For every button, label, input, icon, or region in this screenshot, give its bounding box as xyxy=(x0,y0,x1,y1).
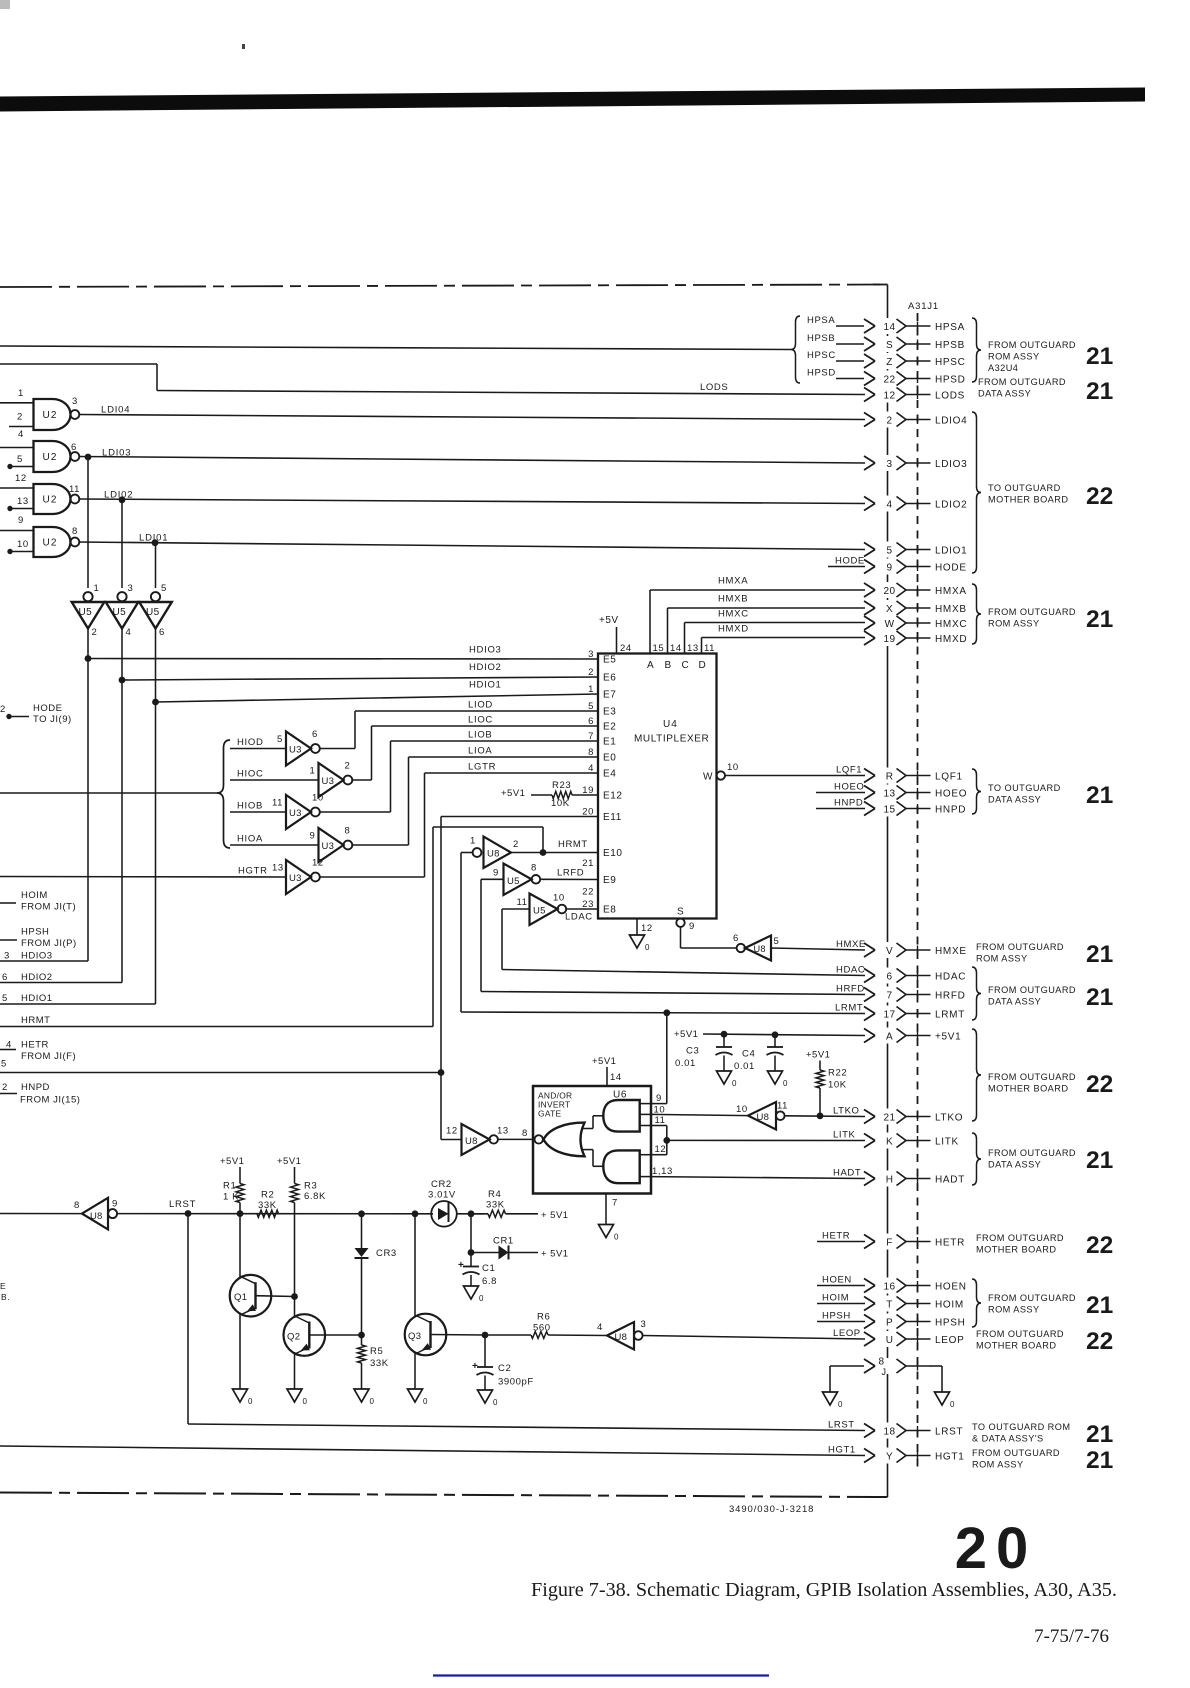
svg-text:H: H xyxy=(886,1174,894,1185)
svg-text:HDIO3: HDIO3 xyxy=(469,645,502,656)
svg-text:LRFD: LRFD xyxy=(557,868,584,879)
svg-text:21: 21 xyxy=(1086,1447,1113,1474)
svg-text:0.01: 0.01 xyxy=(675,1058,696,1069)
svg-text:HETR: HETR xyxy=(822,1230,850,1241)
svg-text:E3: E3 xyxy=(603,707,616,718)
svg-text:11: 11 xyxy=(69,484,80,495)
svg-text:14: 14 xyxy=(670,643,682,654)
svg-text:HPSD: HPSD xyxy=(807,367,836,378)
svg-text:+ 5V1: + 5V1 xyxy=(541,1210,569,1221)
svg-text:LRMT: LRMT xyxy=(835,1002,863,1013)
svg-text:ROM ASSY: ROM ASSY xyxy=(988,352,1040,362)
svg-text:MULTIPLEXER: MULTIPLEXER xyxy=(634,734,709,745)
svg-text:Z: Z xyxy=(886,357,893,368)
svg-text:Q2: Q2 xyxy=(287,1332,300,1343)
svg-text:HPSB: HPSB xyxy=(807,333,835,344)
svg-text:10: 10 xyxy=(727,762,739,773)
svg-text:12: 12 xyxy=(446,1126,458,1137)
svg-text:21: 21 xyxy=(1086,1421,1113,1448)
svg-text:U5: U5 xyxy=(507,876,520,887)
svg-text:12: 12 xyxy=(641,923,653,934)
svg-text:8: 8 xyxy=(879,1357,885,1368)
svg-text:U5: U5 xyxy=(533,906,546,917)
svg-text:U5: U5 xyxy=(113,607,127,618)
svg-text:0: 0 xyxy=(783,1079,788,1088)
svg-text:DATA ASSY: DATA ASSY xyxy=(988,795,1041,805)
svg-text:C2: C2 xyxy=(498,1363,511,1374)
svg-text:FROM OUTGUARD: FROM OUTGUARD xyxy=(972,1448,1060,1458)
svg-text:B.: B. xyxy=(1,1292,10,1302)
svg-text:2: 2 xyxy=(0,704,6,715)
svg-text:E2: E2 xyxy=(603,722,616,733)
svg-text:0: 0 xyxy=(950,1400,955,1409)
svg-text:X: X xyxy=(886,604,893,615)
svg-text:FROM JI(F): FROM JI(F) xyxy=(21,1051,76,1062)
svg-text:HGTR: HGTR xyxy=(238,866,268,877)
svg-text:HODE: HODE xyxy=(33,703,62,714)
svg-text:3: 3 xyxy=(641,1319,647,1330)
svg-text:9: 9 xyxy=(887,562,893,573)
svg-text:0: 0 xyxy=(838,1400,843,1409)
svg-text:0: 0 xyxy=(645,943,650,952)
svg-text:CR2: CR2 xyxy=(431,1179,452,1190)
svg-text:HRMT: HRMT xyxy=(558,839,588,850)
svg-text:TO JI(9): TO JI(9) xyxy=(33,714,72,725)
svg-text:FROM OUTGUARD: FROM OUTGUARD xyxy=(976,1329,1064,1339)
svg-text:MOTHER BOARD: MOTHER BOARD xyxy=(976,1341,1056,1351)
svg-text:5: 5 xyxy=(2,993,8,1004)
svg-text:HDAC: HDAC xyxy=(935,971,966,982)
svg-text:9: 9 xyxy=(310,831,316,842)
svg-text:0: 0 xyxy=(303,1397,308,1406)
svg-text:V: V xyxy=(886,946,893,957)
svg-text:20: 20 xyxy=(955,1516,1038,1581)
svg-text:4: 4 xyxy=(18,429,24,440)
svg-text:11: 11 xyxy=(777,1101,788,1112)
svg-text:LRST: LRST xyxy=(828,1419,855,1430)
svg-text:LGTR: LGTR xyxy=(468,762,496,773)
svg-text:S: S xyxy=(886,340,893,351)
svg-text:13: 13 xyxy=(272,863,284,874)
svg-text:MOTHER BOARD: MOTHER BOARD xyxy=(976,1245,1056,1255)
svg-text:FROM OUTGUARD: FROM OUTGUARD xyxy=(988,1148,1076,1158)
svg-text:FROM JI(15): FROM JI(15) xyxy=(20,1095,80,1106)
svg-text:560: 560 xyxy=(533,1323,551,1334)
svg-text:+5V1: +5V1 xyxy=(501,788,525,799)
svg-text:FROM OUTGUARD: FROM OUTGUARD xyxy=(976,1233,1064,1243)
svg-text:W: W xyxy=(703,772,713,783)
svg-text:LRST: LRST xyxy=(935,1426,963,1437)
svg-text:LDAC: LDAC xyxy=(565,912,593,923)
svg-text:11: 11 xyxy=(655,1115,666,1126)
svg-text:6: 6 xyxy=(887,971,893,982)
svg-text:0: 0 xyxy=(479,1294,484,1303)
svg-text:FROM OUTGUARD: FROM OUTGUARD xyxy=(988,607,1076,617)
svg-text:HMXD: HMXD xyxy=(718,624,749,635)
svg-text:R23: R23 xyxy=(552,780,571,791)
svg-text:4: 4 xyxy=(887,499,893,510)
svg-text:5: 5 xyxy=(887,545,893,556)
svg-text:LDI02: LDI02 xyxy=(104,490,133,501)
svg-text:2: 2 xyxy=(2,1082,8,1093)
svg-text:DATA ASSY: DATA ASSY xyxy=(988,1160,1041,1170)
svg-text:HPSC: HPSC xyxy=(807,350,836,361)
svg-text:HNPD: HNPD xyxy=(21,1082,50,1093)
svg-text:E10: E10 xyxy=(603,848,623,859)
svg-text:6: 6 xyxy=(312,729,318,740)
svg-text:HPSD: HPSD xyxy=(935,374,966,385)
svg-text:+5V1: +5V1 xyxy=(806,1050,830,1061)
svg-text:12: 12 xyxy=(15,473,27,484)
svg-text:DATA ASSY: DATA ASSY xyxy=(978,389,1031,399)
svg-text:+5V1: +5V1 xyxy=(277,1156,301,1167)
svg-text:CR1: CR1 xyxy=(493,1236,514,1247)
svg-text:& DATA ASSY'S: & DATA ASSY'S xyxy=(972,1434,1044,1444)
svg-text:LIOB: LIOB xyxy=(468,730,492,741)
svg-text:15: 15 xyxy=(884,804,896,815)
svg-text:2: 2 xyxy=(92,627,98,638)
svg-text:LEOP: LEOP xyxy=(935,1335,964,1346)
svg-text:+: + xyxy=(458,1260,464,1271)
svg-text:LDIO4: LDIO4 xyxy=(935,415,967,426)
svg-text:HDIO2: HDIO2 xyxy=(21,972,53,983)
svg-text:TO OUTGUARD: TO OUTGUARD xyxy=(988,783,1061,793)
svg-text:19: 19 xyxy=(884,634,896,645)
svg-text:+ 5V1: + 5V1 xyxy=(541,1249,569,1260)
svg-text:HIOC: HIOC xyxy=(237,769,264,780)
svg-text:21: 21 xyxy=(884,1112,896,1123)
svg-text:HIOD: HIOD xyxy=(237,737,264,748)
svg-text:ROM ASSY: ROM ASSY xyxy=(988,619,1040,629)
svg-text:3: 3 xyxy=(72,396,78,407)
svg-text:C3: C3 xyxy=(686,1046,699,1057)
svg-text:W: W xyxy=(885,619,895,630)
svg-text:21: 21 xyxy=(1086,343,1113,370)
svg-text:8: 8 xyxy=(588,747,594,758)
svg-text:14: 14 xyxy=(884,322,896,333)
svg-text:22: 22 xyxy=(1086,1328,1113,1355)
svg-text:HMXA: HMXA xyxy=(718,576,748,587)
svg-text:R2: R2 xyxy=(261,1190,274,1201)
svg-text:11: 11 xyxy=(272,798,283,809)
svg-text:9: 9 xyxy=(18,515,24,526)
svg-text:0: 0 xyxy=(732,1079,737,1088)
svg-text:HMXC: HMXC xyxy=(935,619,967,630)
svg-text:8: 8 xyxy=(72,526,78,537)
svg-text:LDIO2: LDIO2 xyxy=(935,499,967,510)
svg-text:22: 22 xyxy=(1086,1071,1113,1098)
svg-text:LRMT: LRMT xyxy=(935,1009,965,1020)
svg-text:+5V: +5V xyxy=(599,615,619,626)
svg-text:8: 8 xyxy=(345,826,351,837)
svg-text:7: 7 xyxy=(887,990,893,1001)
svg-text:U8: U8 xyxy=(615,1332,628,1343)
svg-text:HMXE: HMXE xyxy=(935,946,967,957)
svg-text:HOIM: HOIM xyxy=(822,1292,849,1303)
svg-text:21: 21 xyxy=(1086,378,1113,405)
svg-text:LTKO: LTKO xyxy=(935,1112,963,1123)
svg-text:5: 5 xyxy=(1,1059,7,1070)
svg-text:R3: R3 xyxy=(304,1181,317,1192)
svg-text:J: J xyxy=(882,1367,887,1377)
svg-text:21: 21 xyxy=(1086,1292,1113,1319)
svg-text:10K: 10K xyxy=(828,1080,847,1091)
svg-text:F: F xyxy=(886,1237,893,1248)
svg-text:E4: E4 xyxy=(603,769,616,780)
svg-text:HDIO3: HDIO3 xyxy=(21,951,53,962)
svg-text:U8: U8 xyxy=(90,1211,103,1222)
svg-text:+5V1: +5V1 xyxy=(592,1056,616,1067)
svg-text:HPSH: HPSH xyxy=(935,1317,966,1328)
svg-text:7: 7 xyxy=(612,1198,618,1209)
svg-text:HMXD: HMXD xyxy=(935,634,967,645)
svg-text:FROM OUTGUARD: FROM OUTGUARD xyxy=(988,340,1076,350)
svg-text:R6: R6 xyxy=(537,1312,550,1323)
svg-text:0: 0 xyxy=(423,1397,428,1406)
svg-text:U8: U8 xyxy=(487,849,500,860)
svg-text:HETR: HETR xyxy=(21,1040,49,1051)
svg-text:LRST: LRST xyxy=(169,1199,196,1210)
svg-text:E11: E11 xyxy=(603,812,622,823)
svg-text:HNPD: HNPD xyxy=(834,797,863,808)
svg-text:12: 12 xyxy=(884,390,896,401)
svg-text:Figure 7-38. Schematic Diagra: Figure 7-38. Schematic Diagram, GPIB Iso… xyxy=(531,1579,1117,1601)
svg-text:K: K xyxy=(886,1136,893,1147)
svg-text:HIOB: HIOB xyxy=(237,801,263,812)
svg-text:R4: R4 xyxy=(488,1189,501,1200)
svg-text:8: 8 xyxy=(522,1128,528,1139)
svg-text:6: 6 xyxy=(733,933,739,944)
svg-text:3: 3 xyxy=(4,951,10,962)
svg-text:U5: U5 xyxy=(146,607,160,618)
svg-text:1: 1 xyxy=(94,583,100,594)
svg-text:HRFD: HRFD xyxy=(935,990,966,1001)
svg-text:C: C xyxy=(682,660,690,671)
svg-text:1 K: 1 K xyxy=(223,1192,239,1203)
svg-text:Q1: Q1 xyxy=(234,1292,247,1303)
svg-text:24: 24 xyxy=(620,643,632,654)
svg-text:HPSA: HPSA xyxy=(935,322,965,333)
svg-text:U5: U5 xyxy=(79,607,93,618)
svg-text:1: 1 xyxy=(310,766,316,777)
svg-text:LQF1: LQF1 xyxy=(935,771,963,782)
svg-text:21: 21 xyxy=(1086,941,1113,968)
svg-text:HMXB: HMXB xyxy=(935,604,967,615)
svg-text:FROM OUTGUARD: FROM OUTGUARD xyxy=(988,1293,1076,1303)
svg-text:4: 4 xyxy=(588,763,594,774)
svg-text:0: 0 xyxy=(493,1398,498,1407)
svg-text:2: 2 xyxy=(17,412,23,423)
svg-text:ROM ASSY: ROM ASSY xyxy=(972,1460,1024,1470)
svg-text:E6: E6 xyxy=(603,673,616,684)
svg-text:6.8: 6.8 xyxy=(482,1276,497,1287)
svg-text:1: 1 xyxy=(470,836,476,847)
svg-text:LDIO1: LDIO1 xyxy=(935,545,967,556)
svg-text:+5V1: +5V1 xyxy=(935,1031,961,1042)
svg-text:22: 22 xyxy=(884,374,896,385)
svg-text:22: 22 xyxy=(1086,483,1113,510)
svg-text:ROM ASSY: ROM ASSY xyxy=(976,954,1028,964)
svg-text:2: 2 xyxy=(513,839,519,850)
svg-text:10: 10 xyxy=(17,539,29,550)
svg-text:U3: U3 xyxy=(289,808,302,819)
svg-text:33K: 33K xyxy=(486,1200,505,1211)
svg-text:8: 8 xyxy=(74,1200,80,1211)
svg-text:A32U4: A32U4 xyxy=(988,363,1018,373)
svg-text:P: P xyxy=(886,1317,893,1328)
svg-text:3: 3 xyxy=(887,459,893,470)
svg-text:HDIO2: HDIO2 xyxy=(469,662,502,673)
svg-text:+5V1: +5V1 xyxy=(674,1029,698,1040)
svg-text:E1: E1 xyxy=(603,737,616,748)
svg-text:5: 5 xyxy=(17,454,23,465)
svg-text:16: 16 xyxy=(884,1281,896,1292)
svg-text:4: 4 xyxy=(597,1322,603,1333)
svg-text:HODE: HODE xyxy=(935,562,967,573)
svg-text:A31J1: A31J1 xyxy=(908,301,939,312)
svg-text:13: 13 xyxy=(687,643,699,654)
svg-text:HOEN: HOEN xyxy=(935,1281,967,1292)
svg-text:LODS: LODS xyxy=(935,390,965,401)
svg-text:HRMT: HRMT xyxy=(21,1015,50,1026)
svg-text:10: 10 xyxy=(736,1104,748,1115)
svg-text:HADT: HADT xyxy=(833,1167,861,1178)
svg-text:9: 9 xyxy=(112,1199,118,1210)
svg-text:HOIM: HOIM xyxy=(21,890,48,901)
svg-text:2: 2 xyxy=(887,415,893,426)
svg-text:U8: U8 xyxy=(465,1136,478,1147)
svg-text:U3: U3 xyxy=(289,873,302,884)
svg-text:LDIO3: LDIO3 xyxy=(935,459,967,470)
svg-text:21: 21 xyxy=(1086,782,1113,809)
svg-text:9: 9 xyxy=(493,868,499,879)
svg-text:TO OUTGUARD ROM: TO OUTGUARD ROM xyxy=(972,1422,1070,1432)
svg-text:S: S xyxy=(677,907,684,918)
svg-text:LQF1: LQF1 xyxy=(836,764,862,775)
svg-text:DATA ASSY: DATA ASSY xyxy=(988,997,1041,1007)
svg-text:LIOD: LIOD xyxy=(468,700,493,711)
svg-text:12: 12 xyxy=(312,858,324,869)
svg-text:E0: E0 xyxy=(603,753,616,764)
svg-text:17: 17 xyxy=(884,1009,896,1020)
svg-text:21: 21 xyxy=(1086,1147,1113,1174)
svg-text:HOEO: HOEO xyxy=(935,788,967,799)
svg-text:15: 15 xyxy=(653,643,665,654)
svg-text:HPSB: HPSB xyxy=(935,340,965,351)
svg-text:T: T xyxy=(886,1299,893,1310)
svg-text:LIOC: LIOC xyxy=(468,715,493,726)
svg-text:HNPD: HNPD xyxy=(935,804,966,815)
svg-text:FROM OUTGUARD: FROM OUTGUARD xyxy=(988,985,1076,995)
svg-text:+: + xyxy=(472,1361,478,1372)
svg-text:3900pF: 3900pF xyxy=(498,1377,534,1388)
svg-text:R5: R5 xyxy=(370,1346,383,1357)
svg-text:CR3: CR3 xyxy=(376,1248,397,1259)
svg-text:E8: E8 xyxy=(603,905,616,916)
svg-text:HIOA: HIOA xyxy=(237,834,263,845)
svg-text:HOIM: HOIM xyxy=(935,1299,964,1310)
svg-text:6: 6 xyxy=(159,627,165,638)
svg-text:LODS: LODS xyxy=(700,382,728,393)
svg-text:FROM JI(T): FROM JI(T) xyxy=(21,902,76,913)
svg-text:U2: U2 xyxy=(43,452,58,463)
svg-text:13: 13 xyxy=(497,1126,509,1137)
svg-text:5: 5 xyxy=(588,701,594,712)
svg-text:LITK: LITK xyxy=(935,1136,959,1147)
svg-text:TO OUTGUARD: TO OUTGUARD xyxy=(988,483,1061,493)
svg-text:FROM OUTGUARD: FROM OUTGUARD xyxy=(988,1072,1076,1082)
svg-text:5: 5 xyxy=(161,583,167,594)
svg-text:U3: U3 xyxy=(322,776,335,787)
svg-text:B: B xyxy=(665,660,672,671)
svg-text:FROM JI(P): FROM JI(P) xyxy=(21,938,77,949)
svg-text:HOEO: HOEO xyxy=(834,781,864,792)
svg-text:U3: U3 xyxy=(322,841,335,852)
svg-text:HETR: HETR xyxy=(935,1237,965,1248)
svg-text:0: 0 xyxy=(248,1397,253,1406)
svg-text:MOTHER BOARD: MOTHER BOARD xyxy=(988,495,1068,505)
svg-text:2: 2 xyxy=(588,667,594,678)
svg-text:HODE: HODE xyxy=(835,555,865,566)
svg-text:3: 3 xyxy=(588,649,594,660)
svg-text:5: 5 xyxy=(277,734,283,745)
svg-text:1: 1 xyxy=(588,684,594,695)
svg-text:13: 13 xyxy=(17,496,29,507)
svg-text:A: A xyxy=(647,660,654,671)
svg-text:FROM OUTGUARD: FROM OUTGUARD xyxy=(976,942,1064,952)
svg-text:HMXE: HMXE xyxy=(836,939,866,950)
svg-text:U3: U3 xyxy=(289,744,302,755)
svg-text:HMXB: HMXB xyxy=(718,594,748,605)
svg-text:6.8K: 6.8K xyxy=(304,1191,326,1202)
svg-text:LIOA: LIOA xyxy=(468,746,492,757)
svg-text:C4: C4 xyxy=(742,1049,755,1060)
svg-text:6: 6 xyxy=(71,442,77,453)
svg-text:14: 14 xyxy=(610,1072,622,1083)
svg-text:2: 2 xyxy=(345,761,351,772)
svg-text:LDI04: LDI04 xyxy=(101,405,130,416)
svg-text:1: 1 xyxy=(18,388,24,399)
svg-text:HGT1: HGT1 xyxy=(828,1444,856,1455)
svg-text:HPSA: HPSA xyxy=(807,315,835,326)
svg-text:R1: R1 xyxy=(223,1181,236,1192)
svg-text:20: 20 xyxy=(884,586,896,597)
svg-text:E7: E7 xyxy=(603,690,616,701)
svg-text:7: 7 xyxy=(588,731,594,742)
svg-text:HPSH: HPSH xyxy=(21,927,49,938)
svg-text:U: U xyxy=(886,1335,894,1346)
svg-text:Y: Y xyxy=(886,1451,893,1462)
svg-text:HPSC: HPSC xyxy=(935,357,966,368)
svg-text:6: 6 xyxy=(588,716,594,727)
svg-text:3: 3 xyxy=(128,583,134,594)
svg-text:4: 4 xyxy=(126,627,132,638)
svg-text:11: 11 xyxy=(517,897,528,908)
svg-text:0: 0 xyxy=(614,1233,619,1242)
svg-text:10K: 10K xyxy=(551,798,570,809)
svg-text:R22: R22 xyxy=(828,1068,847,1079)
svg-text:1,13: 1,13 xyxy=(652,1166,673,1177)
svg-text:LEOP: LEOP xyxy=(833,1328,861,1339)
svg-text:GATE: GATE xyxy=(538,1109,561,1119)
svg-text:FROM OUTGUARD: FROM OUTGUARD xyxy=(978,377,1066,387)
svg-text:LTKO: LTKO xyxy=(833,1105,860,1116)
svg-text:HGT1: HGT1 xyxy=(935,1451,964,1462)
svg-text:U2: U2 xyxy=(43,495,58,506)
svg-text:22: 22 xyxy=(582,887,594,898)
svg-text:LITK: LITK xyxy=(833,1129,856,1140)
svg-text:22: 22 xyxy=(1086,1232,1113,1259)
